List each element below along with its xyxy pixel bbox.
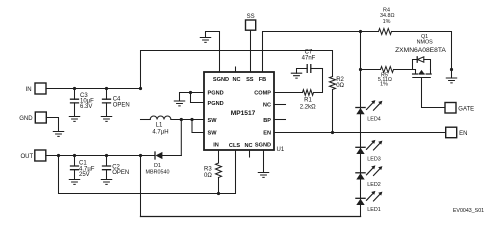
svg-text:25V: 25V bbox=[79, 172, 90, 178]
ground (PGND) bbox=[174, 101, 184, 106]
ground (SGND top) bbox=[200, 38, 210, 43]
svg-text:NC: NC bbox=[232, 77, 240, 83]
svg-text:FB: FB bbox=[259, 77, 266, 83]
svg-text:R2: R2 bbox=[336, 77, 344, 83]
ground (SGND bottom) bbox=[258, 173, 268, 178]
svg-text:PGND: PGND bbox=[208, 101, 224, 107]
stub NC bottom pin bbox=[249, 150, 251, 157]
svg-text:4.7µH: 4.7µH bbox=[152, 129, 168, 135]
ground (Q1 source) bbox=[446, 78, 456, 83]
svg-text:PGND: PGND bbox=[208, 91, 224, 97]
svg-text:NC: NC bbox=[263, 103, 271, 109]
wire OUT rail bbox=[46, 154, 155, 157]
wire GND to ground bbox=[46, 118, 58, 132]
svg-text:U1: U1 bbox=[277, 147, 285, 153]
wire OUT column to LED return rail bbox=[141, 156, 361, 217]
svg-text:LED1: LED1 bbox=[367, 207, 381, 213]
LED1 bbox=[356, 191, 383, 213]
wire VIN line (IN rail up, across top of IC, to R2) bbox=[141, 51, 333, 89]
svg-text:EN: EN bbox=[459, 131, 467, 137]
capacitor C3 bbox=[71, 89, 95, 117]
stub NC right pin bbox=[274, 104, 286, 106]
svg-text:1%: 1% bbox=[383, 19, 391, 25]
svg-text:EN: EN bbox=[263, 131, 271, 137]
svg-text:GATE: GATE bbox=[458, 107, 474, 113]
svg-text:MBR0540: MBR0540 bbox=[146, 169, 170, 175]
wire SGND bottom pin to ground bbox=[263, 150, 265, 173]
svg-text:SGND: SGND bbox=[255, 142, 271, 148]
capacitor C4 bbox=[103, 89, 130, 117]
svg-text:IN: IN bbox=[213, 142, 219, 148]
terminal OUT bbox=[21, 150, 46, 161]
svg-text:2.2kΩ: 2.2kΩ bbox=[300, 104, 316, 110]
svg-text:MP1517: MP1517 bbox=[231, 110, 256, 117]
stub BP right pin bbox=[274, 119, 286, 121]
wire EN net bbox=[274, 132, 446, 134]
transistor Q1 NMOS ZXMN6A08E8TA bbox=[395, 34, 446, 78]
capacitor C2 bbox=[103, 156, 130, 180]
wire Q1 gate to GATE terminal bbox=[422, 78, 446, 108]
svg-text:ZXMN6A08E8TA: ZXMN6A08E8TA bbox=[395, 47, 446, 54]
capacitor C1 bbox=[71, 156, 95, 180]
svg-text:BP: BP bbox=[263, 118, 271, 124]
svg-text:NMOS: NMOS bbox=[417, 40, 434, 46]
svg-text:D1: D1 bbox=[154, 163, 161, 169]
svg-text:GND: GND bbox=[19, 116, 33, 122]
svg-text:R3: R3 bbox=[204, 167, 212, 173]
svg-text:LED4: LED4 bbox=[367, 117, 381, 123]
wire SS pin bbox=[250, 30, 252, 72]
svg-text:6.3V: 6.3V bbox=[80, 104, 92, 110]
ground (C4) bbox=[101, 117, 111, 122]
wire SGND top pin to ground bbox=[206, 32, 220, 73]
svg-text:0Ω: 0Ω bbox=[336, 83, 344, 89]
svg-text:LED3: LED3 bbox=[367, 156, 381, 162]
resistor R1 2.2k (COMP) bbox=[274, 69, 323, 111]
ground (GND terminal) bbox=[53, 132, 63, 137]
wire IN rail bbox=[46, 87, 142, 90]
terminal GATE bbox=[445, 103, 474, 114]
terminal GND bbox=[19, 112, 46, 123]
LED3 bbox=[356, 140, 383, 162]
resistor R4 34.8ohm bbox=[379, 7, 395, 34]
svg-text:SS: SS bbox=[247, 14, 255, 20]
terminal EN bbox=[446, 127, 468, 138]
inductor L1 bbox=[141, 116, 205, 135]
LED4 bbox=[356, 100, 383, 123]
ground (C2) bbox=[101, 180, 111, 185]
wire SW2 riser bbox=[192, 120, 204, 133]
IC U1 MP1517 bbox=[204, 72, 285, 153]
svg-text:1%: 1% bbox=[380, 81, 388, 87]
wire SW node column (D1 to SW) bbox=[180, 120, 182, 156]
svg-text:SS: SS bbox=[246, 77, 254, 83]
svg-text:OPEN: OPEN bbox=[112, 170, 129, 176]
svg-text:L1: L1 bbox=[156, 123, 163, 129]
terminal SS bbox=[246, 14, 256, 30]
wire FB net (FB pin up and right to LED/R4 node) bbox=[263, 30, 379, 72]
svg-text:OUT: OUT bbox=[21, 154, 34, 160]
svg-text:SW: SW bbox=[208, 131, 218, 137]
wire R4 to Q1 source / ground column bbox=[392, 32, 454, 79]
resistor R2 0ohm bbox=[330, 77, 345, 135]
resistor R3 0ohm bbox=[204, 150, 222, 194]
ground (C7) bbox=[291, 73, 301, 78]
svg-text:OPEN: OPEN bbox=[113, 102, 130, 108]
LED2 bbox=[356, 165, 383, 187]
svg-text:C7: C7 bbox=[305, 49, 313, 55]
stub NC top pin bbox=[235, 67, 237, 72]
svg-text:SW: SW bbox=[208, 118, 218, 124]
diode D1 MBR0540 bbox=[146, 152, 182, 175]
svg-text:LED2: LED2 bbox=[367, 182, 381, 188]
wire LED string column bbox=[360, 32, 362, 217]
capacitor C7 47nF bbox=[297, 49, 323, 73]
resistor R5 5.11ohm bbox=[359, 67, 416, 88]
ground (C1) bbox=[69, 180, 79, 185]
svg-text:47nF: 47nF bbox=[302, 56, 316, 62]
svg-text:CLS: CLS bbox=[229, 143, 240, 149]
svg-text:COMP: COMP bbox=[254, 90, 271, 96]
svg-text:NC: NC bbox=[244, 143, 252, 149]
svg-text:SGND: SGND bbox=[213, 77, 229, 83]
note EV0043_S01 bbox=[453, 208, 484, 214]
wire PGND pins to ground bbox=[180, 91, 205, 103]
terminal IN bbox=[26, 83, 46, 94]
svg-text:0Ω: 0Ω bbox=[204, 173, 212, 179]
ground (C3) bbox=[69, 117, 79, 122]
svg-text:IN: IN bbox=[26, 87, 32, 93]
svg-text:EV0043_S01: EV0043_S01 bbox=[453, 208, 484, 214]
svg-text:R1: R1 bbox=[304, 98, 312, 104]
wire OUT to CLS and R3 (bottom feed line) bbox=[59, 150, 236, 195]
